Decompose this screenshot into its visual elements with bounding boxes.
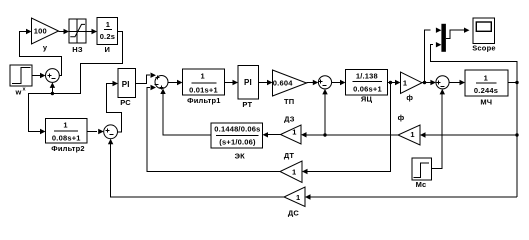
svg-text:ДТ: ДТ [284,151,295,160]
svg-text:100: 100 [34,26,47,35]
wire ф to sum S5 (with scope tap junction) [422,80,436,85]
junction dot current tap [389,81,392,84]
scope block [472,18,496,53]
sum junction S4 [318,76,331,89]
svg-text:ф: ф [398,113,405,122]
svg-text:0.604: 0.604 [273,78,293,87]
compensation block ЭК (0.1448/0.06s / (s+1/0.06)) [211,123,263,161]
gain block ДЗ [281,115,302,144]
svg-text:1: 1 [484,73,488,82]
svg-text:0.01s+1: 0.01s+1 [189,86,218,95]
svg-text:1: 1 [201,71,205,80]
gain block ТП (0.604) [273,70,307,106]
svg-text:ДЗ: ДЗ [284,115,295,124]
PI regulator РС [118,69,136,108]
svg-text:1/.138: 1/.138 [356,72,378,81]
wire Фильтр1 to РТ [225,80,239,85]
svg-text:1: 1 [410,130,414,139]
svg-text:Фильтр2: Фильтр2 [51,144,85,153]
wire И output down-around to sum S1 minus and Фильтр2 [29,32,123,135]
gain block ДТ [280,151,302,183]
wire S4 to ЯЦ [332,80,346,85]
wire sum S1 output up-around to gain у input [20,29,62,76]
integrator block МЧ (1/0.244s) [465,70,508,107]
gain block ф lower (EMF coefficient) [398,113,420,145]
junction dot scope tap [423,81,426,84]
gain block ДС [284,187,305,218]
wire РС to sum S3 plus (upper-left) [136,73,157,84]
wire ТП to sum S4 [307,80,319,85]
wire EMF tap to ф lower input [420,132,517,137]
gain block у (100) [32,18,59,52]
junction dot EMF to S4 [323,133,326,136]
svg-text:1: 1 [106,20,110,29]
sum junction S1 [46,69,60,83]
wire speed down right side [516,83,518,198]
integrator block И (1/0.2s) [97,18,118,55]
svg-text:1: 1 [296,193,300,202]
wire НЗ to И [86,29,97,34]
wire speed up-around to mux input 2 [431,42,518,83]
wire ЭК to sum S3 bottom plus [160,89,211,136]
svg-text:0.1448/0.06s: 0.1448/0.06s [214,125,260,134]
wire current tap down to ДТ input [302,83,391,175]
saturation block НЗ [69,19,86,54]
svg-text:0.06s+1: 0.06s+1 [353,84,382,93]
wire ДЗ to ЭК [263,132,281,137]
wire junction up into sum S1 bottom [50,82,55,93]
svg-text:1: 1 [403,79,407,88]
PI regulator РТ [238,66,259,109]
junction dot EMF tap [515,133,518,136]
wire w* to sum S1 [32,73,46,78]
svg-text:у: у [43,43,48,52]
wire Фильтр2 to sum S2 [87,129,104,134]
wire S5 to МЧ [449,80,465,85]
svg-text:PI: PI [244,78,252,87]
wire МЧ output to speed node [508,82,517,84]
svg-text:0.08s+1: 0.08s+1 [52,134,81,143]
svg-text:РТ: РТ [242,100,252,109]
svg-text:0.2s: 0.2s [100,32,115,41]
sum junction S3 [155,76,169,90]
filter block Фильтр2 (1/0.08s+1) [46,119,88,153]
step source Мс [412,158,432,189]
transfer block ЯЦ (1/.138 / 0.06s+1) [346,70,388,104]
wire РТ to ТП [259,80,273,85]
svg-text:1: 1 [63,121,67,130]
svg-text:И: И [105,45,111,54]
svg-text:(s+1/0.06): (s+1/0.06) [219,137,256,146]
svg-text:МЧ: МЧ [480,98,492,107]
svg-text:НЗ: НЗ [72,45,83,54]
svg-text:РС: РС [120,98,131,107]
sum junction S2 [104,125,118,139]
svg-text:1: 1 [292,168,296,177]
wire ЯЦ to ф (with current tap junction) [388,80,401,85]
wire ДТ output to sum S3 minus (lower-left) [147,85,280,172]
mux block [441,24,446,52]
wire Мс to sum S5 minus [432,89,445,169]
step source w* [10,65,32,97]
svg-text:ТП: ТП [284,97,294,106]
svg-text:ф: ф [406,93,413,102]
svg-text:ЯЦ: ЯЦ [361,95,373,104]
gain block ф (torque coefficient) [401,72,423,102]
svg-text:w: w [15,88,22,97]
wire ф lower output (EMF) to ДЗ input [301,132,398,137]
wire mux to scope [446,28,470,39]
svg-text:Мс: Мс [416,180,427,189]
svg-text:ДС: ДС [288,209,300,218]
svg-text:1: 1 [292,128,296,137]
svg-text:Scope: Scope [472,44,496,53]
wire gain у to НЗ [59,29,70,34]
svg-text:0.244s: 0.244s [474,86,498,95]
filter block Фильтр1 (1/0.01s+1) [183,69,225,105]
wire sum S3 to Фильтр1 [168,80,183,85]
svg-text:PI: PI [122,80,130,89]
wire sum S2 output up-around to РС input [107,81,122,132]
wire speed to ДС input [305,194,517,199]
junction dot on И feedback line [51,92,54,95]
svg-text:ЭК: ЭК [235,152,246,161]
junction dot speed node [515,81,518,84]
wire ДС output to sum S2 bottom minus [108,139,284,197]
sum junction S5 [436,76,449,89]
svg-text:Фильтр1: Фильтр1 [187,96,221,105]
wire scope tap up to mux input 1 [425,28,442,83]
wire EMF junction up to sum S4 minus [322,89,327,135]
